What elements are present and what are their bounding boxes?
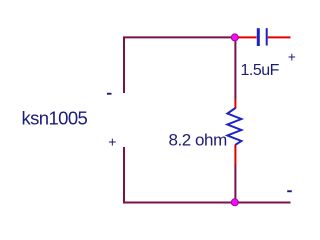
svg-text:+: +	[288, 49, 296, 64]
svg-text:8.2 ohm: 8.2 ohm	[169, 131, 228, 150]
svg-text:ksn1005: ksn1005	[22, 107, 88, 128]
svg-text:1.5uF: 1.5uF	[241, 62, 280, 79]
svg-text:+: +	[108, 134, 116, 150]
